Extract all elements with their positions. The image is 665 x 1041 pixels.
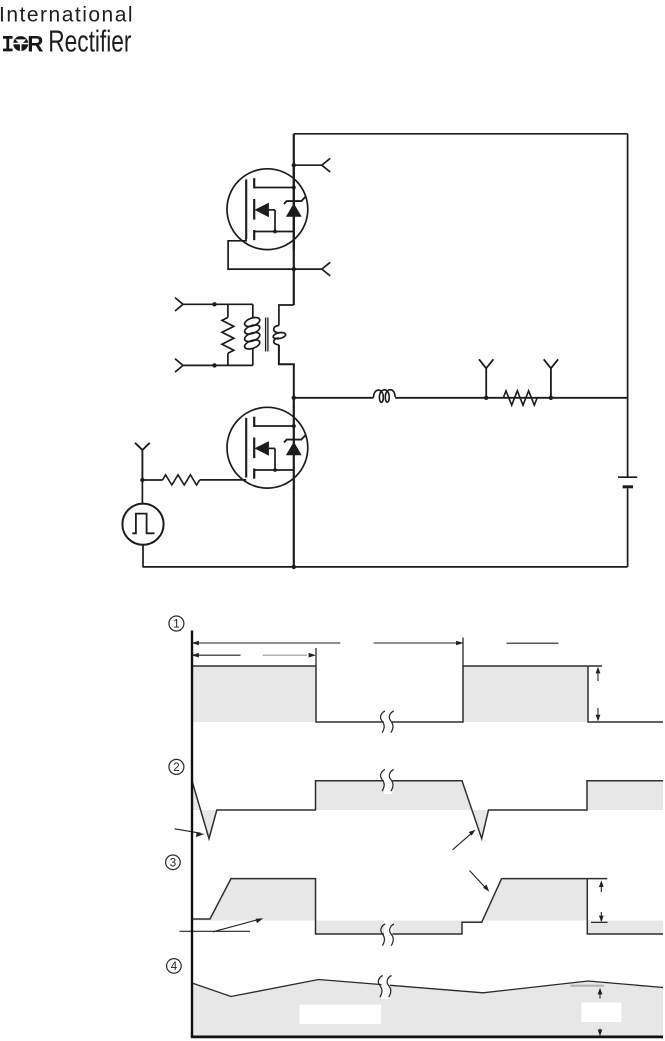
wire source bottom lead [142,545,144,567]
svg-text:International: International [0,4,134,27]
node primary bottom stub [175,359,183,372]
dimension arrow period [192,642,463,644]
transistor Q1 [227,168,308,251]
waveform bottom rail [191,1036,663,1039]
node label circle 2 [169,759,184,774]
wire top rail [294,133,628,135]
logo IOR mark: globe O [13,36,29,51]
white label box w4 right [582,1003,622,1023]
waveform 1 trace [192,666,663,722]
transformer T1 secondary winding [274,326,279,333]
wire primary top [183,303,253,305]
node mid rail junction [292,396,296,400]
transformer T1 primary winding [252,304,254,365]
waveform 1 fill [192,666,663,722]
waveform 2 trace [192,781,663,839]
dimension extension lines [316,638,463,667]
callout arrow notch 1 [175,829,201,833]
callout arrow w3 start [213,919,259,931]
wire battery bottom [627,488,629,567]
wire left vertical through Q1 [293,134,295,305]
waveform axis [191,631,193,1038]
node primary top stub [175,298,183,311]
resistor R3 load [503,391,537,405]
wire Q2 drain [293,398,295,408]
dimension amplitude w4 [599,991,601,1032]
label line pulse2 [507,642,559,644]
transformer T1 core [266,318,268,352]
callout arrow notch 2 [453,832,473,849]
waveform 3 trace [192,879,663,934]
node label circle 3 [166,855,181,870]
wire bottom rail [142,566,627,568]
node label circle 4 [167,959,182,974]
svg-text:3: 3 [170,857,176,869]
node drain stub Q1 [294,158,330,172]
pulse source V1 [122,504,163,545]
svg-text:R: R [27,31,43,56]
svg-text:Rectifier: Rectifier [48,24,131,58]
label line w3 [180,930,251,932]
waveform 4 fill [192,980,663,1036]
wire gate right [200,479,246,481]
waveform 3 fill [192,879,663,934]
wire right vertical upper [627,134,629,477]
resistor R2 gate [163,475,200,485]
wire transformer secondary bottom jog [279,345,294,398]
wire primary bottom [183,364,253,366]
wire gate left [142,479,162,481]
node Vout stub 2 [544,359,558,398]
waveform 4 trace [192,980,663,997]
gray mean-level tick w4 [571,985,605,987]
wire Q1 gate-to-source loop [228,238,294,270]
white label box w4 left [300,1005,382,1025]
battery BT1 [618,476,637,478]
dimension amplitude w1 [597,670,599,720]
wire mid rail right [395,397,627,399]
wire source top lead [141,480,143,504]
node source stub Q1 [294,262,330,276]
svg-text:2: 2 [173,762,179,774]
waveform 4 break mark [382,974,390,999]
node Vout stub 1 [479,359,493,398]
dimension amplitude w3 [591,921,608,923]
node gate input stub [135,443,150,480]
waveform 3 break mark [384,921,392,948]
waveform 2 break mark [384,766,392,794]
logo IOR mark: I [3,36,13,51]
svg-text:1: 1 [173,619,179,631]
waveform 1 break mark [384,708,392,736]
wire transformer secondary top jog [279,305,294,326]
wire Q2 source down [293,488,295,567]
dimension arrow on-time [192,654,241,656]
waveform 2 fill [192,781,663,839]
svg-text:4: 4 [171,961,178,973]
node label circle 1 [169,616,184,631]
node bottom junction [292,565,296,569]
inductor L1 [374,390,396,403]
wire mid rail left [294,397,374,399]
callout arrow w3 ramp [470,871,487,889]
resistor R1 damping across primary [227,304,229,365]
transistor Q2 [227,406,308,489]
